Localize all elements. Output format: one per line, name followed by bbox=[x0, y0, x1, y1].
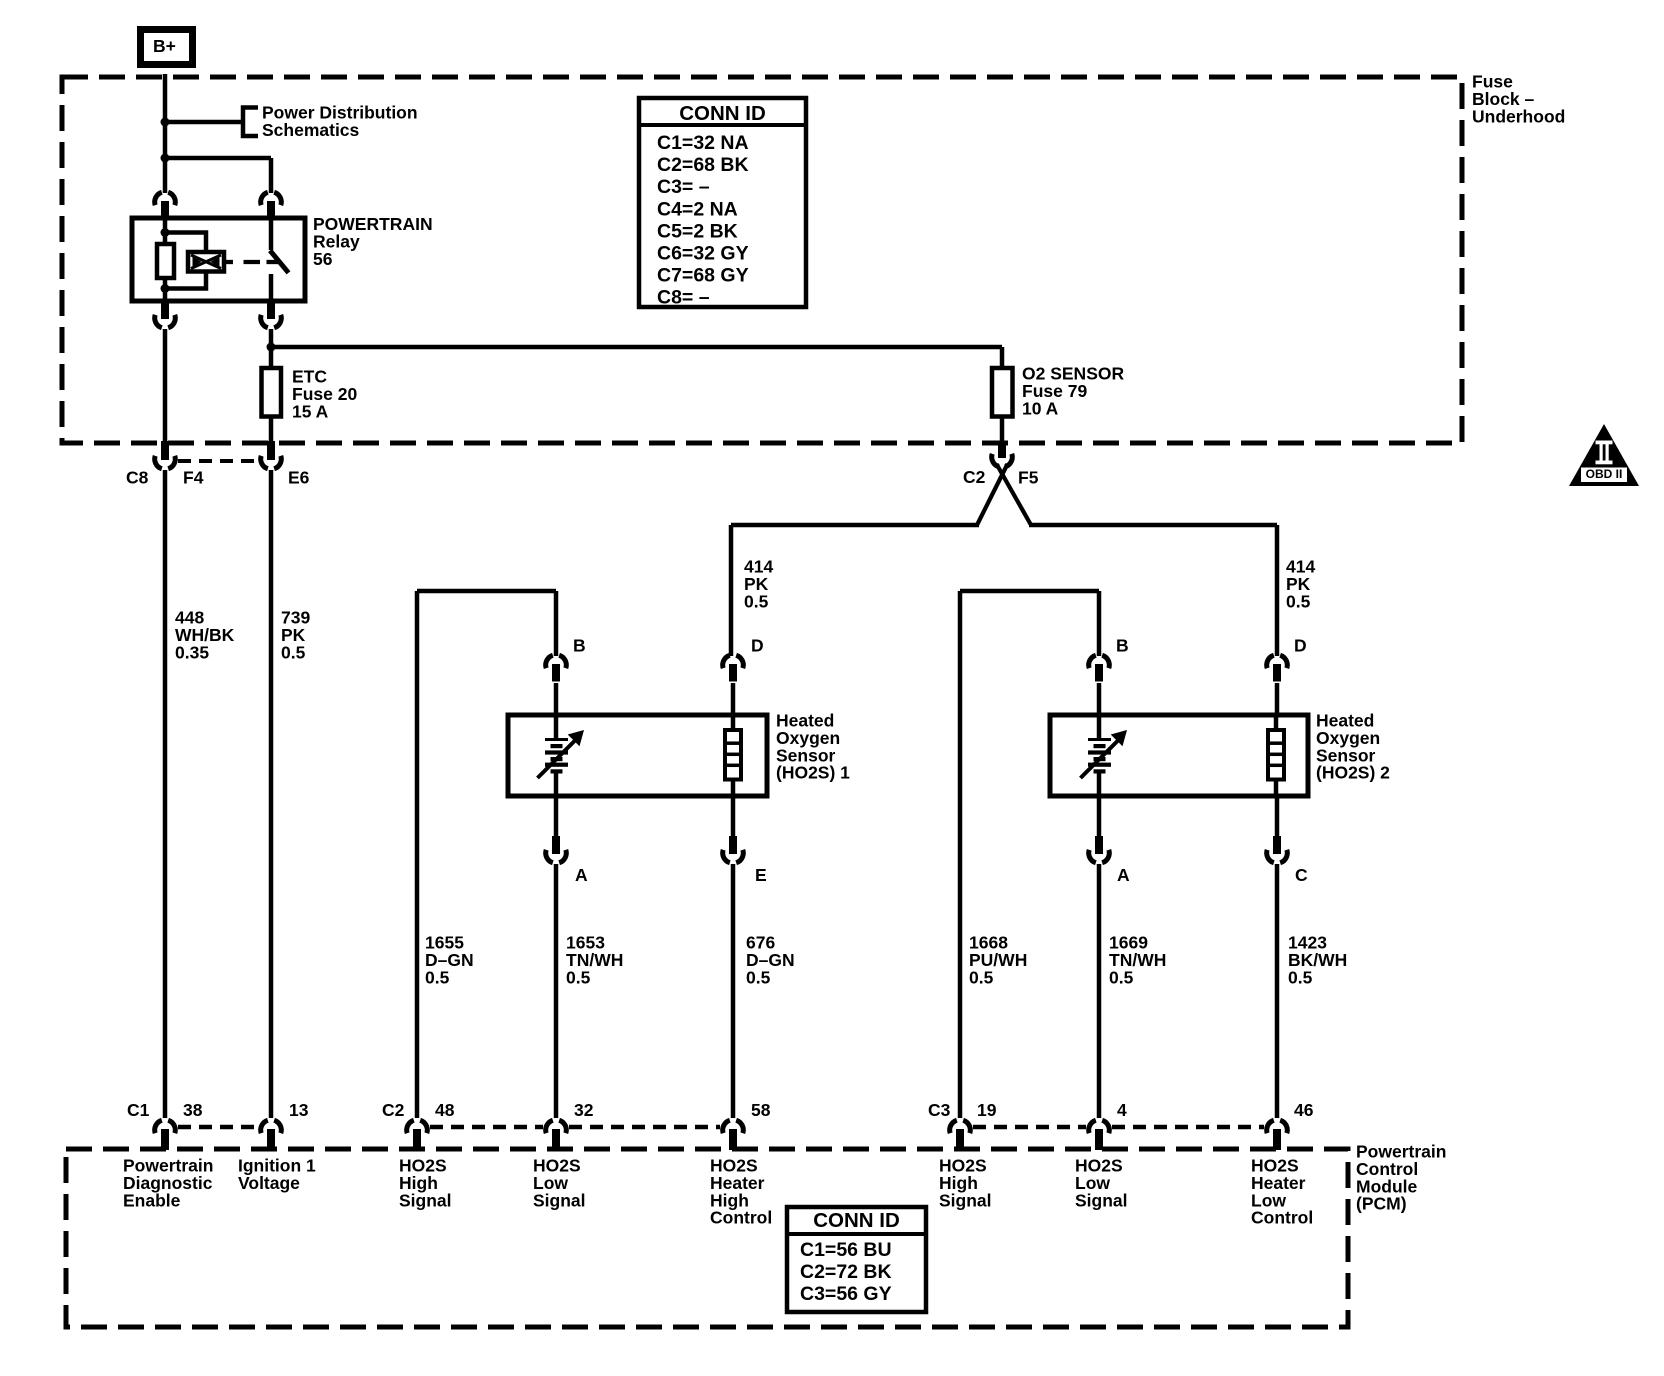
svg-text:C8: C8 bbox=[126, 468, 149, 488]
svg-text:C2=68 BK: C2=68 BK bbox=[657, 154, 749, 176]
svg-text:46: 46 bbox=[1294, 1100, 1314, 1120]
svg-text:48: 48 bbox=[435, 1100, 455, 1120]
svg-text:C6=32 GY: C6=32 GY bbox=[657, 243, 749, 265]
svg-text:32: 32 bbox=[574, 1100, 594, 1120]
svg-text:D: D bbox=[751, 636, 764, 656]
svg-text:0.35: 0.35 bbox=[175, 642, 209, 662]
svg-text:C3=56 GY: C3=56 GY bbox=[800, 1283, 892, 1305]
svg-text:0.5: 0.5 bbox=[746, 967, 771, 987]
svg-text:0.5: 0.5 bbox=[1286, 591, 1311, 611]
svg-text:E: E bbox=[755, 865, 767, 885]
svg-text:19: 19 bbox=[977, 1100, 997, 1120]
svg-text:C8= –: C8= – bbox=[657, 287, 710, 309]
svg-text:F4: F4 bbox=[183, 468, 204, 488]
svg-text:Schematics: Schematics bbox=[262, 120, 360, 140]
svg-text:OBD II: OBD II bbox=[1586, 467, 1623, 481]
svg-text:15 A: 15 A bbox=[292, 401, 329, 421]
svg-text:0.5: 0.5 bbox=[425, 967, 450, 987]
svg-text:C2=72 BK: C2=72 BK bbox=[800, 1261, 892, 1283]
svg-text:Enable: Enable bbox=[123, 1190, 181, 1210]
svg-text:Signal: Signal bbox=[399, 1190, 452, 1210]
svg-text:C7=68 GY: C7=68 GY bbox=[657, 265, 749, 287]
svg-text:C3= –: C3= – bbox=[657, 176, 710, 198]
svg-text:Control: Control bbox=[1251, 1208, 1313, 1228]
svg-text:0.5: 0.5 bbox=[1288, 967, 1313, 987]
svg-text:Signal: Signal bbox=[533, 1190, 586, 1210]
svg-text:0.5: 0.5 bbox=[566, 967, 591, 987]
svg-text:10 A: 10 A bbox=[1022, 398, 1059, 418]
svg-text:C5=2 BK: C5=2 BK bbox=[657, 220, 738, 242]
svg-text:C1: C1 bbox=[127, 1100, 150, 1120]
svg-text:C3: C3 bbox=[928, 1100, 951, 1120]
svg-text:(HO2S) 1: (HO2S) 1 bbox=[776, 763, 850, 783]
svg-text:Underhood: Underhood bbox=[1472, 106, 1565, 126]
svg-text:CONN ID: CONN ID bbox=[813, 1209, 900, 1232]
svg-text:B+: B+ bbox=[153, 36, 176, 56]
svg-text:D: D bbox=[1294, 636, 1307, 656]
svg-text:C2: C2 bbox=[382, 1100, 405, 1120]
svg-text:C2: C2 bbox=[963, 467, 986, 487]
svg-text:Signal: Signal bbox=[1075, 1190, 1128, 1210]
svg-text:(HO2S) 2: (HO2S) 2 bbox=[1316, 763, 1390, 783]
svg-text:0.5: 0.5 bbox=[1109, 967, 1134, 987]
svg-text:A: A bbox=[1117, 865, 1130, 885]
svg-text:38: 38 bbox=[183, 1100, 203, 1120]
svg-text:C: C bbox=[1295, 865, 1308, 885]
svg-text:13: 13 bbox=[289, 1100, 309, 1120]
svg-text:Voltage: Voltage bbox=[238, 1173, 300, 1193]
svg-text:56: 56 bbox=[313, 249, 333, 269]
svg-text:(PCM): (PCM) bbox=[1356, 1194, 1407, 1214]
svg-text:Control: Control bbox=[710, 1208, 772, 1228]
svg-text:Signal: Signal bbox=[939, 1190, 992, 1210]
svg-text:4: 4 bbox=[1117, 1100, 1127, 1120]
svg-text:C4=2 NA: C4=2 NA bbox=[657, 198, 738, 220]
svg-text:F5: F5 bbox=[1018, 468, 1039, 488]
svg-text:0.5: 0.5 bbox=[281, 642, 306, 662]
svg-text:58: 58 bbox=[751, 1100, 771, 1120]
svg-text:E6: E6 bbox=[288, 468, 310, 488]
svg-text:CONN ID: CONN ID bbox=[679, 102, 766, 125]
svg-text:C1=56 BU: C1=56 BU bbox=[800, 1239, 892, 1261]
svg-text:C1=32 NA: C1=32 NA bbox=[657, 132, 749, 154]
svg-text:0.5: 0.5 bbox=[744, 591, 769, 611]
svg-text:A: A bbox=[575, 865, 588, 885]
svg-text:0.5: 0.5 bbox=[969, 967, 994, 987]
svg-text:B: B bbox=[1116, 636, 1129, 656]
svg-text:B: B bbox=[573, 636, 586, 656]
